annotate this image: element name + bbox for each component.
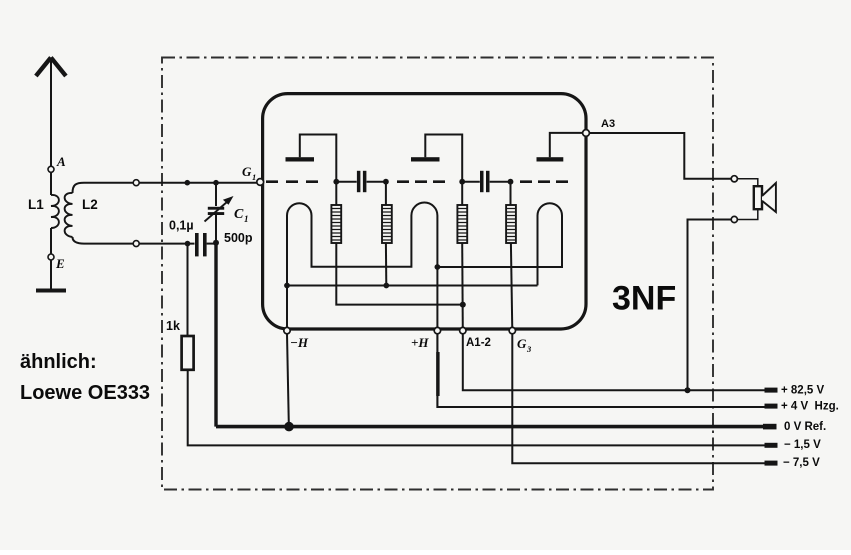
wire E to ground xyxy=(50,260,52,289)
svg-text:3NF: 3NF xyxy=(612,280,676,318)
filament 1 and 2 xyxy=(287,203,437,331)
wire terminal to speaker xyxy=(737,179,757,186)
svg-text:0,1µ: 0,1µ xyxy=(169,219,194,233)
resistor R4 xyxy=(506,205,516,243)
svg-text:+ 82,5 V: + 82,5 V xyxy=(781,385,824,397)
wire R3 bottom to A1-2 pin xyxy=(461,243,464,331)
resistor R2 lead xyxy=(385,183,387,205)
junction dot +H filament xyxy=(435,264,441,270)
resistor R3 xyxy=(457,205,467,243)
rail end bar 0V xyxy=(763,424,777,430)
coupling capacitor 1 wires xyxy=(336,181,386,183)
junction dot xyxy=(185,180,191,186)
wire to G1 xyxy=(139,182,257,184)
grid G1 dashes xyxy=(266,180,318,183)
svg-text:3: 3 xyxy=(526,344,532,354)
svg-text:ähnlich:: ähnlich: xyxy=(20,351,97,373)
anode A3 plate xyxy=(537,157,564,161)
resistor 1k lead xyxy=(187,246,189,336)
wire speaker to terminal bottom xyxy=(737,209,757,219)
wire R1 bottom to A1-2 xyxy=(336,243,463,305)
svg-text:− 1,5 V: − 1,5 V xyxy=(784,439,821,451)
resistor R3 lead xyxy=(461,183,463,205)
resistor R1 lead xyxy=(335,183,337,205)
pin G3 xyxy=(509,327,515,333)
junction dot -H xyxy=(284,283,290,289)
svg-text:500p: 500p xyxy=(224,231,253,245)
resistor R4 lead xyxy=(510,183,512,205)
thick wire 500p node down to 0V xyxy=(214,243,217,427)
junction dot A1-2 internal xyxy=(460,302,466,308)
svg-text:Loewe OE333: Loewe OE333 xyxy=(20,382,150,404)
wire to 0,1u xyxy=(139,243,194,245)
rail end bar +4V xyxy=(765,404,778,409)
svg-text:1k: 1k xyxy=(166,319,180,333)
svg-text:G: G xyxy=(242,164,252,179)
coil L2 xyxy=(65,193,73,237)
speaker terminal top xyxy=(731,176,737,182)
wire 1k to -1,5V rail xyxy=(188,370,765,446)
wire L1 to E xyxy=(50,228,52,254)
anode A2 wire xyxy=(425,135,462,180)
wire A1-2 down to +82,5V rail xyxy=(463,334,765,390)
wire A to L1 xyxy=(50,172,52,195)
svg-text:+ 4 V Hzg.: + 4 V Hzg. xyxy=(781,401,839,413)
rail end bar -7,5V xyxy=(765,461,778,466)
wire L2 top xyxy=(73,183,134,193)
wire L2 bottom xyxy=(73,237,134,244)
anode A1 plate xyxy=(286,157,315,161)
wire R4 bottom to G3 pin xyxy=(511,243,512,331)
node A3 xyxy=(583,130,590,137)
wire -H to filament3 left xyxy=(287,285,538,287)
resistor 1k xyxy=(182,336,194,370)
speaker horn xyxy=(762,183,776,212)
anode A1 wire xyxy=(300,135,337,180)
wire +H down to +4V rail xyxy=(437,334,764,407)
junction dot 0V xyxy=(284,422,294,432)
pin A1-2 xyxy=(460,327,466,333)
grid G3 dashes xyxy=(520,180,568,183)
anode A2 plate xyxy=(411,157,440,161)
resistor R2 xyxy=(382,205,392,243)
svg-text:1: 1 xyxy=(252,172,256,182)
svg-text:A3: A3 xyxy=(601,118,615,130)
junction dot +82,5V xyxy=(685,387,691,393)
rail end bar -1,5V xyxy=(765,443,778,448)
wire R2 bottom xyxy=(385,243,387,286)
filament 3 wire from +H xyxy=(437,203,562,285)
node G1 xyxy=(257,179,264,186)
tube envelope 3NF xyxy=(263,94,586,329)
speaker terminal bottom xyxy=(731,216,737,222)
wire 0,1u to node xyxy=(207,243,214,245)
resistor R1 xyxy=(331,205,341,243)
svg-text:C: C xyxy=(234,207,244,222)
svg-text:A: A xyxy=(56,154,66,169)
svg-text:1: 1 xyxy=(244,214,249,224)
svg-text:0 V Ref.: 0 V Ref. xyxy=(784,421,826,433)
terminal circle top xyxy=(133,180,139,186)
wire terminal down to +82,5V xyxy=(688,220,732,389)
antenna xyxy=(36,58,66,167)
anode A3 wire xyxy=(550,133,583,157)
pin -H xyxy=(284,327,290,333)
svg-text:A1-2: A1-2 xyxy=(466,337,491,349)
rail end bar +82,5V xyxy=(765,388,778,393)
ground xyxy=(36,289,66,293)
capacitor C1 wire bottom xyxy=(215,215,217,241)
pin +H xyxy=(434,327,440,333)
wire -H down xyxy=(287,334,289,424)
svg-text:L2: L2 xyxy=(82,197,98,212)
junction dot C1 top xyxy=(213,180,219,186)
junction dot R2 bottom xyxy=(383,283,389,289)
node E xyxy=(48,254,54,260)
svg-text:−H: −H xyxy=(290,335,309,350)
node A xyxy=(48,166,54,172)
rail 0 V Ref thick xyxy=(216,425,764,429)
capacitor 0,1u xyxy=(195,233,207,256)
coupling capacitor 2 wires xyxy=(462,181,510,183)
speaker body xyxy=(754,186,762,209)
svg-text:G: G xyxy=(517,336,527,351)
terminal circle bottom xyxy=(133,241,139,247)
coil L1 xyxy=(51,195,59,228)
wire A3 to speaker xyxy=(589,133,731,179)
grid G2 dashes xyxy=(397,180,445,183)
svg-text:E: E xyxy=(55,256,65,271)
grid line dots xyxy=(333,179,513,185)
node dot 500p xyxy=(213,240,219,246)
junction dot 1k xyxy=(185,241,191,247)
svg-text:+H: +H xyxy=(411,335,429,350)
coupling capacitor 2 xyxy=(480,171,490,192)
svg-text:L1: L1 xyxy=(28,197,44,212)
dash-dot frame xyxy=(162,58,713,490)
coupling capacitor 1 xyxy=(357,171,367,192)
capacitor C1 arrow xyxy=(205,202,228,222)
capacitor C1 plates xyxy=(208,207,224,215)
wire G3 down to -7,5V rail xyxy=(512,334,764,463)
capacitor C1 wire top xyxy=(215,185,217,206)
svg-text:− 7,5 V: − 7,5 V xyxy=(783,457,820,469)
